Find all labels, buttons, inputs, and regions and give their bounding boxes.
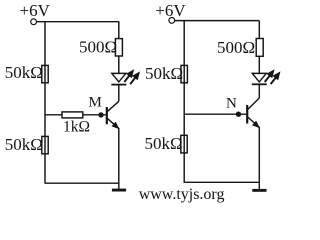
svg-text:N: N	[226, 95, 237, 111]
wire resistor to LED (right)	[258, 56, 260, 73]
terminal circle (right +6V)	[169, 18, 175, 24]
wire top horizontal (right circuit)	[175, 20, 259, 22]
wire resistor to LED (left)	[118, 56, 120, 73]
wire emitter to ground (left)	[118, 128, 120, 189]
svg-text:50kΩ: 50kΩ	[145, 64, 183, 83]
wire left rail (left circuit)	[44, 21, 46, 183]
transistor Q2 base bar	[246, 105, 248, 124]
wire collector branch vertical top (left circuit)	[118, 21, 120, 38]
transistor Q1 base bar	[106, 107, 108, 124]
terminal circle (left +6V)	[31, 19, 37, 25]
wire top horizontal (left circuit)	[37, 21, 119, 23]
wire bottom horizontal (left circuit)	[45, 182, 119, 184]
wire right rail (right circuit)	[183, 21, 185, 183]
transistor Q1 emitter diagonal	[107, 118, 119, 128]
LED D1 emission arrow 2	[130, 72, 139, 84]
svg-text:www.tyjs.org: www.tyjs.org	[139, 186, 225, 203]
svg-text:50kΩ: 50kΩ	[5, 63, 43, 82]
transistor Q1 emitter arrowhead	[112, 122, 119, 129]
LED D2 triangle	[252, 73, 266, 82]
node N dot	[236, 112, 241, 117]
LED D1 emission arrow 1	[124, 70, 133, 82]
svg-text:+6V: +6V	[20, 1, 51, 20]
ground (left)	[112, 189, 126, 192]
LED D1 cathode bar	[111, 84, 126, 86]
wire from 1k resistor to transistor base	[83, 114, 106, 116]
transistor Q1 collector diagonal	[107, 101, 119, 111]
node M dot	[98, 112, 103, 117]
resistor R7 500Ω	[256, 39, 263, 57]
wire node N branch	[184, 113, 246, 115]
svg-text:M: M	[89, 95, 102, 111]
LED D2 emission arrow 2	[271, 72, 280, 84]
wire bottom horizontal (right circuit)	[184, 181, 259, 183]
svg-text:1kΩ: 1kΩ	[63, 118, 90, 135]
wire LED to collector (left)	[118, 85, 120, 102]
wire LED to collector (right)	[258, 84, 260, 98]
LED D1 triangle	[112, 73, 126, 82]
wire emitter to ground (right)	[258, 127, 260, 189]
resistor R1 50kΩ upper-left	[42, 65, 48, 82]
LED D2 cathode bar	[252, 83, 267, 85]
ground (right)	[252, 189, 266, 192]
resistor R6 50kΩ lower-right	[181, 135, 187, 153]
wire collector branch vertical top (right circuit)	[258, 21, 260, 39]
resistor R4 500Ω	[115, 39, 122, 56]
svg-text:50kΩ: 50kΩ	[5, 135, 43, 154]
wire branch from rail to 1k resistor	[45, 114, 62, 116]
resistor R3 50kΩ lower-left	[42, 136, 48, 153]
svg-text:500Ω: 500Ω	[217, 38, 255, 57]
svg-text:500Ω: 500Ω	[79, 38, 117, 57]
svg-text:50kΩ: 50kΩ	[145, 134, 183, 153]
resistor R2 1kΩ (horizontal)	[62, 112, 83, 118]
LED D2 emission arrow 1	[265, 70, 274, 82]
transistor Q2 emitter diagonal	[248, 117, 260, 127]
resistor R5 50kΩ upper-right	[181, 65, 187, 82]
transistor Q2 emitter arrowhead	[252, 121, 259, 128]
transistor Q2 collector diagonal	[248, 98, 260, 110]
